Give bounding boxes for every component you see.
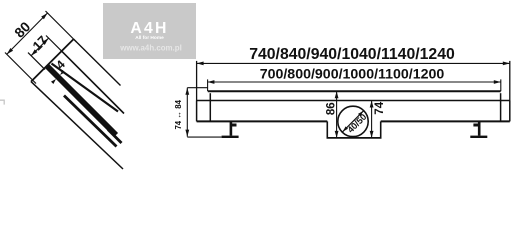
svg-text:www.a4h.com.pl: www.a4h.com.pl — [119, 43, 182, 52]
label 17 — [29, 33, 50, 54]
extension line grate left — [207, 79, 209, 91]
extension line grate right — [500, 79, 502, 91]
svg-text:740/840/940/1040/1140/1240: 740/840/940/1040/1140/1240 — [249, 46, 455, 63]
dimension line 86 — [336, 91, 338, 138]
body bottom right segment — [381, 120, 510, 122]
right foot — [470, 121, 487, 138]
label 40/50 — [345, 112, 368, 135]
slot companion extension — [46, 36, 62, 52]
stripe S1 — [52, 64, 119, 112]
outlet right wall — [380, 121, 382, 137]
label 74-84 — [174, 99, 183, 129]
svg-text:A4H: A4H — [130, 20, 168, 37]
dimension line 17 — [31, 38, 48, 56]
pipe diameter arrow — [343, 111, 364, 132]
grate top line — [208, 90, 501, 92]
svg-text:17: 17 — [29, 33, 50, 54]
channel end cap — [31, 39, 74, 82]
height range connector top — [187, 87, 207, 89]
dimension line 80 — [7, 13, 48, 54]
slot stripe tail — [108, 130, 122, 144]
label 4 — [53, 57, 68, 72]
body bottom left segment — [197, 120, 328, 122]
slot stripe S2 — [47, 66, 116, 135]
grate wall left — [209, 93, 211, 121]
extension line edge C — [46, 11, 77, 42]
extension line slot edge — [28, 53, 45, 70]
stripe S3 — [64, 96, 117, 147]
channel edge A — [31, 82, 123, 169]
label 80 — [11, 18, 33, 40]
dimension 4 arrows — [51, 79, 56, 84]
dimension line 740 — [197, 62, 510, 64]
height range dimension line — [186, 88, 188, 137]
body left edge — [196, 101, 198, 122]
stray corner mark left edge — [0, 100, 4, 104]
height range connector bottom — [187, 136, 221, 138]
outlet left wall — [326, 121, 328, 137]
body right edge — [509, 101, 511, 122]
extension line right — [509, 61, 511, 101]
svg-text:74: 74 — [374, 101, 386, 114]
extension line edge A — [5, 53, 36, 84]
svg-text:All for Home: All for Home — [135, 35, 164, 41]
channel edge C — [74, 39, 121, 85]
svg-text:80: 80 — [11, 18, 33, 40]
svg-text:4: 4 — [53, 57, 68, 72]
left foot — [222, 121, 239, 138]
dimension line 74 — [371, 101, 373, 138]
slot companion line — [62, 51, 124, 113]
logo plate A4H — [103, 3, 196, 59]
extension line left — [196, 61, 198, 101]
outlet bottom — [327, 137, 382, 139]
dimension line 700 — [207, 81, 500, 83]
body top line — [197, 100, 510, 102]
drain pipe circle — [338, 106, 368, 136]
svg-text:74 ↔ 84: 74 ↔ 84 — [174, 99, 183, 129]
svg-text:700/800/900/1000/1100/1200: 700/800/900/1000/1100/1200 — [260, 67, 445, 83]
grate wall right — [500, 93, 502, 121]
label 86 — [325, 102, 337, 115]
label 74 — [374, 101, 386, 114]
svg-text:86: 86 — [325, 102, 337, 115]
